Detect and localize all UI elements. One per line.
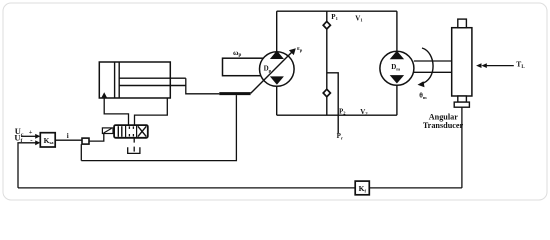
- svg-text:i: i: [67, 132, 69, 140]
- svg-text:Transducer: Transducer: [423, 121, 464, 130]
- svg-text:Angular: Angular: [429, 112, 458, 121]
